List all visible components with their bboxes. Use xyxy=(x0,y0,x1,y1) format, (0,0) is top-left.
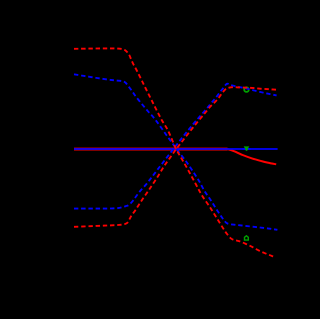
marker: green filled triangle-down on blue solid line xyxy=(244,146,250,151)
green marker core on blue line xyxy=(245,148,248,151)
red dashed curve: lower-left ascending to upper-right xyxy=(74,87,278,227)
solid blue line: horizontal across xyxy=(74,148,278,150)
marker: green open pentagon on lower-right red dashed line xyxy=(245,236,249,240)
blue line overdraw through triangle marker xyxy=(243,148,251,150)
blue dashed curve: lower-left ascending to upper-right with overshoot peak xyxy=(74,84,277,209)
red dashed curve: upper-left descending steeply to lower-right xyxy=(74,48,275,257)
marker: green open circle on upper-right red dashed line xyxy=(244,87,249,92)
blue dashed curve: upper-left descending to lower-right xyxy=(74,74,277,230)
solid red line: horizontal then bending down at right xyxy=(74,149,276,164)
